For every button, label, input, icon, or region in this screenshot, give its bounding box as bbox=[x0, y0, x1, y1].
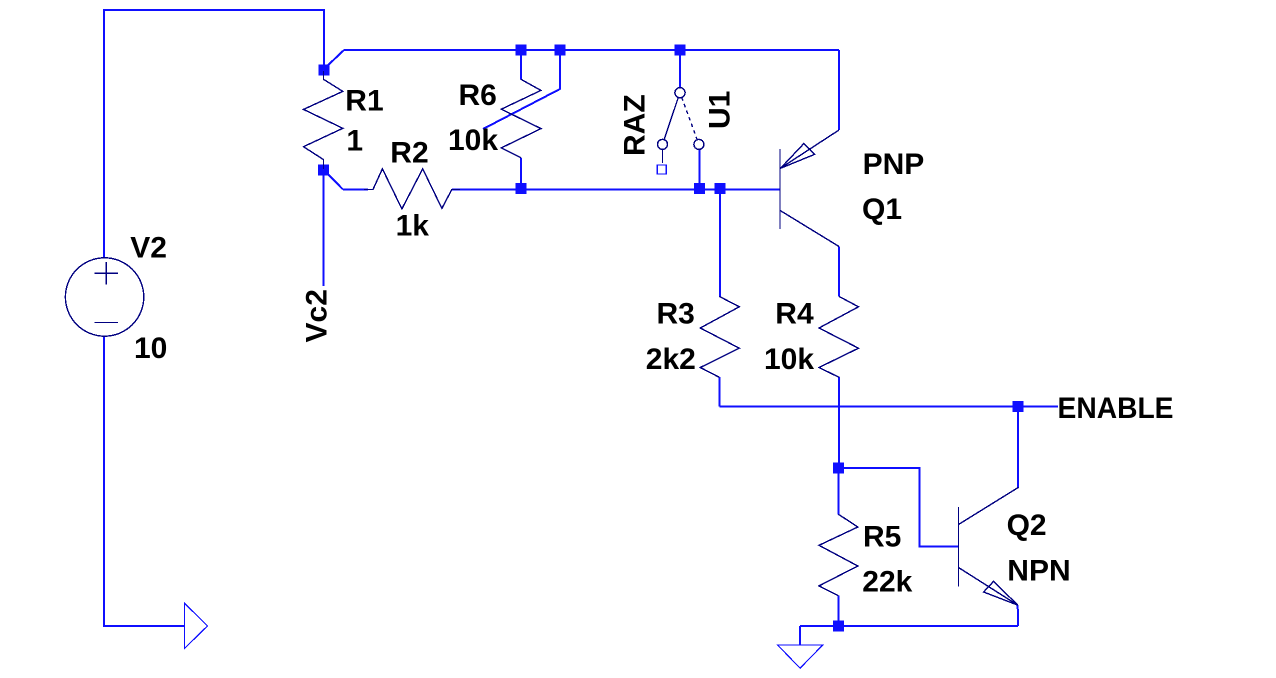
wire ENABLE to Q2 collector bbox=[1017, 407, 1019, 488]
junction node R6 bottom bbox=[516, 183, 527, 194]
svg-text:Vc2: Vc2 bbox=[301, 289, 334, 342]
svg-text:R1: R1 bbox=[345, 84, 383, 117]
svg-text:PNP: PNP bbox=[863, 148, 925, 181]
wire ground stub bbox=[799, 626, 801, 645]
wire rail to Q1 emitter stub bbox=[838, 50, 840, 130]
wire R3 top lead bbox=[719, 189, 721, 296]
svg-text:10k: 10k bbox=[448, 124, 498, 157]
wire R6 bottom lead bbox=[520, 158, 522, 189]
resistor R1 bbox=[304, 71, 343, 169]
wire rail2 R2 to Q1 base bbox=[452, 189, 780, 191]
resistor R3 bbox=[700, 296, 739, 377]
wire V2 top to R1 top bbox=[104, 10, 324, 258]
wire Vc2 stub bbox=[323, 170, 325, 286]
svg-text:ENABLE: ENABLE bbox=[1058, 392, 1174, 425]
transistor Q2 NPN bbox=[959, 487, 1019, 605]
junction node R3 top bbox=[714, 183, 725, 194]
svg-text:RAZ: RAZ bbox=[619, 94, 652, 156]
resistor R6 bbox=[501, 79, 541, 158]
resistor R2 bbox=[364, 169, 460, 209]
wire R4 bottom lead bbox=[838, 377, 840, 468]
wire R3 bottom lead bbox=[718, 377, 720, 407]
wire diagonal from node to 10k label bbox=[483, 50, 560, 129]
svg-text:1k: 1k bbox=[396, 210, 430, 243]
switch U1 bbox=[658, 88, 704, 163]
svg-text:R5: R5 bbox=[863, 521, 901, 554]
wire R5 top lead bbox=[838, 468, 840, 514]
wire top rail bbox=[344, 49, 839, 51]
wire Q2 emitter tail bbox=[1017, 605, 1019, 626]
wire switch top stub bbox=[679, 50, 681, 88]
wire switch right bottom stub bbox=[699, 150, 701, 190]
junction node R1 bottom bbox=[318, 164, 329, 175]
resistor R5 bbox=[819, 514, 858, 595]
wire diagonal R1 bottom to R2 bbox=[324, 170, 343, 190]
svg-text:2k2: 2k2 bbox=[646, 343, 696, 376]
junction node ENABLE bbox=[1013, 401, 1024, 412]
wire R2 left lead bbox=[343, 189, 368, 191]
svg-text:R6: R6 bbox=[459, 79, 497, 112]
wire V2 bottom bbox=[104, 336, 185, 626]
junction node R1 top bbox=[319, 65, 330, 76]
wire rail3 ENABLE bbox=[719, 406, 1058, 408]
wire diagonal junction to top rail bbox=[324, 50, 344, 69]
svg-text:V2: V2 bbox=[130, 232, 167, 265]
svg-text:NPN: NPN bbox=[1007, 555, 1070, 588]
wire R4 top lead bbox=[838, 247, 840, 297]
wire R6 top lead bbox=[520, 50, 522, 79]
junction node R6 top bbox=[516, 45, 527, 56]
voltage source V2 bbox=[65, 258, 143, 336]
wire rail4 bottom bbox=[800, 625, 1018, 627]
ground right-pointing at V2 bbox=[185, 603, 208, 648]
svg-text:R4: R4 bbox=[775, 297, 814, 330]
svg-text:Q1: Q1 bbox=[862, 193, 902, 226]
svg-text:U1: U1 bbox=[704, 91, 737, 129]
svg-text:Q2: Q2 bbox=[1007, 509, 1047, 542]
junction node switch top bbox=[675, 45, 686, 56]
svg-text:R3: R3 bbox=[657, 297, 695, 330]
svg-text:1: 1 bbox=[346, 125, 363, 158]
resistor R4 bbox=[819, 296, 859, 377]
svg-text:R2: R2 bbox=[390, 137, 428, 170]
junction node diag wire top bbox=[555, 45, 566, 56]
wire Q2 base path bbox=[839, 468, 959, 546]
wire R5 bottom lead bbox=[838, 596, 840, 626]
junction node switch bottom bbox=[694, 183, 705, 194]
switch button square bbox=[657, 165, 666, 174]
junction node R5 top bbox=[833, 462, 844, 473]
transistor Q1 PNP bbox=[780, 130, 839, 247]
svg-text:10k: 10k bbox=[764, 343, 814, 376]
ground bottom bbox=[778, 645, 823, 668]
svg-text:10: 10 bbox=[134, 332, 167, 365]
junction node R5 bottom bbox=[833, 620, 844, 631]
svg-text:22k: 22k bbox=[862, 566, 912, 599]
